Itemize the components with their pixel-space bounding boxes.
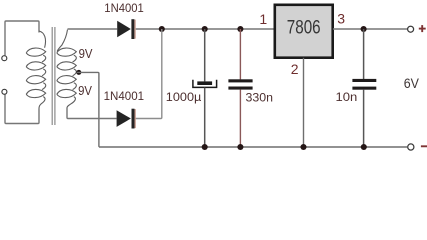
capacitor C2 330n [228,79,252,89]
junction node C1 bottom [202,144,208,150]
transformer T1 primary winding [26,31,46,109]
output terminal + [408,26,414,32]
1N4001 label (bottom) [104,89,145,103]
wire secondary bottom to D2 anode [67,108,117,119]
9V label upper half [79,46,93,61]
svg-text:1000µ: 1000µ [166,92,202,104]
wire top rail to C3 [363,29,365,79]
svg-text:2: 2 [291,61,299,77]
svg-text:1: 1 [259,11,267,27]
svg-text:7806: 7806 [287,16,321,38]
pin label 3 [337,11,345,27]
svg-text:3: 3 [337,11,345,27]
wire C3 to bottom rail [363,90,365,147]
svg-text:330n: 330n [246,92,274,104]
diode D1 1N4001 [117,19,136,39]
1N4001 label (top) [104,1,144,15]
capacitor C3 10n [352,79,376,90]
6V label [404,76,420,92]
svg-text:9V: 9V [78,83,92,98]
pin label 1 [259,11,267,27]
wire top rail to C1 [204,29,206,81]
junction node U1 pin2 bottom [300,144,306,150]
junction node C2 top [237,26,243,32]
output terminal - [408,144,414,150]
wire primary bottom to input terminal [5,95,39,124]
svg-text:10n: 10n [336,92,358,104]
wire secondary top to D1 anode [68,28,118,30]
junction node C2 bottom [237,144,243,150]
330n label [246,92,274,104]
junction node C1 top [202,26,208,32]
junction node D2 branch on top rail [159,26,165,32]
wire input top to primary [5,21,39,55]
10n label [336,92,358,104]
9V label lower half [78,83,92,98]
pin label 2 [291,61,299,77]
bottom rail wire [99,146,407,148]
wire C1 to bottom rail [204,88,206,147]
transformer T1 core [52,27,55,125]
diode D2 1N4001 [117,109,136,129]
1000u label [166,92,202,104]
center tap node [76,70,81,75]
wire D2 cathode up to top rail [135,29,162,119]
wire (red) top rail to C2 [239,29,241,79]
input terminal J1 (bottom) [2,89,7,94]
svg-text:6V: 6V [404,76,420,92]
input terminal J1 (top) [2,56,7,61]
wire U1 pin3 to output + [333,28,407,30]
wire (red) C2 to bottom rail [239,90,241,147]
transformer T1 secondary winding [57,30,77,108]
plus sign [419,25,426,32]
wire D1 cathode to U1 pin1 [136,28,274,30]
wire U1 pin2 to bottom rail [303,58,305,147]
minus sign [421,145,427,147]
capacitor C1 1000u electrolytic [193,80,217,88]
regulator U1 7806 [275,5,333,58]
svg-text:1N4001: 1N4001 [104,1,144,15]
junction node C3 bottom [361,144,367,150]
junction node C3 top [361,26,367,32]
svg-text:1N4001: 1N4001 [104,89,145,103]
wire center tap to bottom rail [77,72,99,146]
svg-text:9V: 9V [79,46,93,61]
